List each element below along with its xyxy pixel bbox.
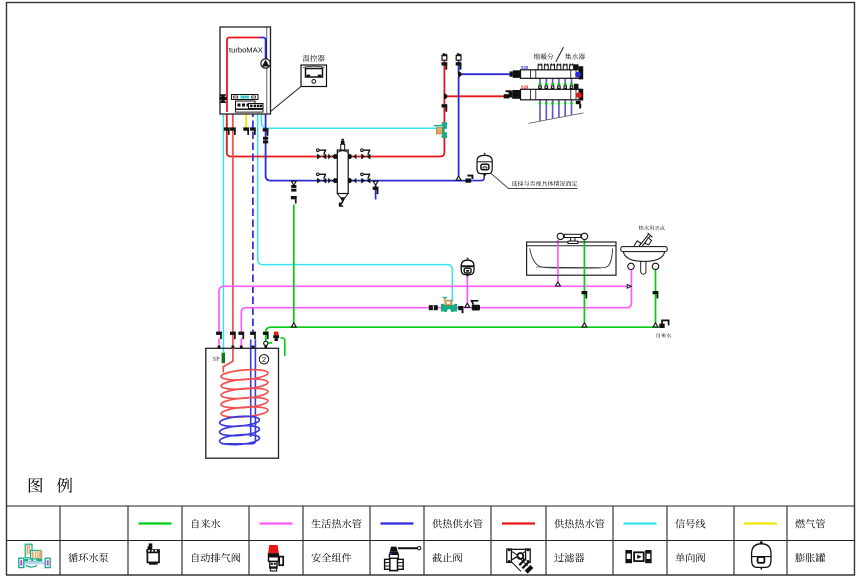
- pipe: DHW coil supply boiler to tank (light red): [223, 99, 233, 348]
- ball valve heating supply right of separator: [361, 149, 371, 160]
- manifold return right end cap with red ball: [574, 84, 583, 101]
- manifold outlet glyphs on supply bar: [538, 64, 574, 70]
- legend label 自动排气阀: [192, 553, 240, 563]
- boiler internal flow loop blue: [260, 38, 266, 60]
- pipe: riser to small DHW expansion vessel (magenta): [466, 274, 468, 308]
- legend label 供热供水管: [432, 519, 482, 528]
- pipe: cold riser to bathtub tap (green): [583, 240, 585, 327]
- pipe: system fill connection from cold water to heating return (green): [293, 205, 295, 328]
- valve under red air vent: [442, 62, 448, 69]
- pipe: DHW supply tank to taps (magenta): [219, 286, 629, 331]
- thermostat label 温控器: [303, 55, 325, 62]
- port ticks at tank top: [218, 346, 268, 349]
- valves above storage tank: [216, 332, 222, 340]
- valve under blue air vent: [456, 62, 462, 69]
- manifold loops baseline: [529, 113, 584, 124]
- pipe: expansion tank connection stub (blue): [472, 174, 484, 181]
- coil entry jog (red): [223, 348, 233, 372]
- bathtub faucet bridge: [564, 234, 581, 243]
- wire: signal line boiler to floor-heating pump (cyan): [261, 112, 436, 128]
- ball valve heating return left of separator: [317, 173, 327, 184]
- legend line sample: 供热供水管: [381, 522, 414, 524]
- legend label 膨胀罐: [795, 553, 825, 562]
- svg-text:S20: S20: [521, 65, 529, 70]
- legend icon: strainer 过滤器: [507, 549, 534, 574]
- pipe: heating supply branch to manifold (red): [444, 95, 512, 97]
- tee dot heating supply riser: [444, 94, 448, 99]
- fill valve: [291, 196, 297, 204]
- heat exchanger coil blue loops: [219, 415, 260, 446]
- valve after DHW pump: [458, 306, 463, 313]
- manifold supply bar inlet fittings: [510, 70, 521, 78]
- tee tick at blue riser elbow: [458, 72, 462, 77]
- legend icon: check valve 单向阀: [625, 550, 651, 563]
- note text 选择与否视具体情况而定: [512, 181, 578, 187]
- double check fitting on fill line: [291, 185, 296, 192]
- bathtub inner basin: [530, 248, 613, 268]
- flange pair left blue: [328, 178, 335, 184]
- valve caps on return bar: [538, 85, 573, 89]
- arrow end of DHW supply at sink riser: [627, 284, 631, 288]
- legend line sample: 信号线: [624, 522, 657, 524]
- legend label 截止阀: [432, 553, 462, 562]
- pipe: drain stub on heating return (blue): [375, 181, 377, 200]
- storage tank body: [206, 348, 279, 458]
- union circle on cold feed: [264, 341, 268, 345]
- legend table grid: [6, 506, 855, 575]
- pipe: heating return riser to manifold (blue): [459, 60, 513, 181]
- legend icon: safety assembly 安全组件: [268, 545, 283, 571]
- tank sensor SP: [222, 353, 225, 364]
- manifold loop pipes (floor heating circuits): [540, 78, 572, 121]
- legend label 自来水: [192, 519, 220, 528]
- pipe: tank riser stubs below valves (magenta): [219, 339, 241, 349]
- valve on heating return below boiler: [263, 128, 269, 136]
- flange pair right red: [350, 154, 357, 160]
- pipe: safety valve branch at tank (green): [268, 338, 285, 356]
- ball valve heating return right of separator: [361, 173, 371, 184]
- valve on DHW coil return below boiler: [250, 127, 256, 134]
- drain valve below manifold return end: [576, 101, 581, 109]
- valve on bathtub cold riser: [582, 291, 588, 299]
- legend title 图例: [29, 478, 43, 493]
- label 自来水 at inlet: [657, 333, 672, 338]
- union fitting on heating return: [263, 137, 268, 144]
- tee junction on heating return for fill line: [291, 181, 296, 185]
- drain tee on heating return: [373, 181, 378, 185]
- valve on sink cold riser: [653, 291, 659, 299]
- DHW circulation pump: [441, 297, 457, 314]
- legend icon: circulation pump 循环水泵: [19, 544, 51, 567]
- legend line sample: 自来水: [139, 522, 172, 524]
- flange pair left red: [328, 154, 335, 160]
- safety valve assembly 安全组件 at tank: [273, 332, 279, 341]
- sink basin: [621, 247, 667, 275]
- tee triangle bathtub hot riser: [555, 282, 560, 286]
- tee triangle on DHW circulation: [465, 303, 470, 307]
- cold water main inlet valve: [659, 320, 668, 328]
- boiler turboMAX cabinet: [220, 27, 271, 114]
- tee triangle sink cold at main: [653, 323, 658, 327]
- svg-text:S20: S20: [521, 84, 529, 89]
- heat exchanger coil red loops: [221, 368, 269, 418]
- boiler internal pump: [261, 59, 270, 68]
- bathtub: [527, 242, 616, 275]
- green dots on manifold loops: [539, 83, 573, 105]
- legend label 过滤器: [554, 553, 584, 562]
- boiler internal flow loop red: [227, 38, 260, 113]
- manifold supply bar: [521, 70, 581, 79]
- check valve fitting on DHW circulation: [429, 305, 438, 310]
- bathtub riser pass-through (redraw over tub): [557, 243, 559, 276]
- legend line sample: 燃气管: [744, 522, 777, 524]
- air vent on heating return riser top: [456, 53, 461, 60]
- legend label 供热热水管: [554, 519, 604, 528]
- tee triangle fill line at cold main: [291, 323, 296, 327]
- valve on DHW coil supply below boiler: [230, 127, 236, 134]
- legend icon: automatic air vent 自动排气阀: [146, 543, 160, 564]
- ball valve on DHW circulation: [472, 301, 480, 311]
- pipe: gas line (yellow): [245, 112, 247, 131]
- legend line sample: 供热热水管: [502, 522, 535, 524]
- pipe: heating supply boiler to hydraulic separator and manifold riser (red): [227, 60, 445, 157]
- tank number label 2: [259, 355, 268, 365]
- pipe: cold riser to sink tap (green): [655, 269, 657, 327]
- wire: signal line boiler to DHW pump (cyan): [258, 110, 453, 303]
- valve on cold feed into tank: [263, 332, 269, 340]
- legend line sample: 生活热水管: [260, 522, 293, 524]
- boiler left connection fitting: [219, 94, 226, 103]
- sink label 热水用水点: [639, 225, 665, 230]
- expansion tank: [477, 152, 492, 175]
- gas valve: [243, 127, 249, 134]
- circulation pump on floor heating supply riser: [434, 122, 448, 138]
- pipe: DHW coil return boiler to tank (blue dashed): [252, 110, 254, 332]
- sink faucet: [634, 233, 653, 248]
- sink cold connection: [652, 263, 658, 269]
- manifold label 地暖分/集水器: [534, 53, 554, 59]
- manifold return bar: [521, 89, 581, 100]
- tee triangle at heating return riser: [456, 176, 461, 180]
- legend icon: stop valve 截止阀: [385, 547, 421, 571]
- pipe: DHW circulation return line (magenta): [241, 269, 631, 331]
- boiler control panel: [232, 95, 264, 113]
- flange pair right blue: [350, 178, 357, 184]
- drain valve on heating return stub: [373, 187, 379, 195]
- manifold supply right end cap with blue ball: [574, 64, 583, 79]
- legend label 单向阀: [675, 553, 705, 562]
- separator top air vent: [341, 139, 345, 145]
- valve on red branch to manifold: [504, 90, 512, 98]
- legend label 信号线: [675, 519, 705, 529]
- separator bottom drain valve: [340, 198, 346, 206]
- thermostat box: [301, 65, 327, 87]
- pipe: heating return separator line to boiler (blue): [266, 68, 473, 180]
- legend label 燃气管: [795, 519, 825, 528]
- bathtub hot tap handle: [557, 233, 563, 239]
- valve on heating supply riser: [442, 104, 448, 112]
- hydraulic separator vessel: [334, 144, 351, 197]
- valve before expansion tank: [466, 175, 474, 183]
- bathtub cold tap handle: [581, 233, 587, 239]
- wire: signal line boiler to tank sensor (cyan): [222, 112, 224, 352]
- pipe: cold water main (green): [266, 327, 659, 348]
- valve on heating supply below boiler: [224, 127, 230, 134]
- leader line thermostat to boiler: [271, 87, 302, 112]
- legend label 安全组件: [311, 553, 351, 562]
- manifold return bar inlet fittings: [509, 90, 521, 99]
- svg-text:2: 2: [262, 355, 266, 364]
- leader line for expansion tank note: [491, 173, 578, 189]
- small DHW expansion vessel: [461, 257, 474, 276]
- svg-text:turboMAX: turboMAX: [229, 46, 263, 55]
- legend label 生活热水管: [311, 519, 361, 528]
- sink hot connection: [628, 263, 634, 269]
- legend label 循环水泵: [68, 553, 108, 562]
- tee triangle bathtub cold at main: [582, 323, 587, 327]
- ball valve heating supply left of separator: [317, 149, 327, 160]
- pipe: coil riser pair into tank (blue): [250, 340, 252, 438]
- pipe: DHW riser to bathtub hot tap (magenta): [557, 240, 559, 286]
- air vent on heating supply riser top: [442, 53, 447, 60]
- legend icon: expansion tank 膨胀罐: [752, 541, 771, 570]
